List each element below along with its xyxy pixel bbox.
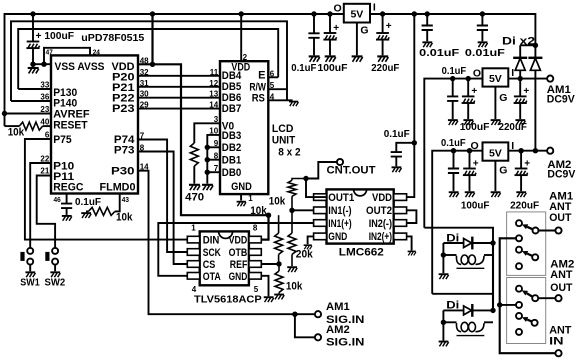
wire OUT1 to CNT.OUT <box>306 162 337 197</box>
wire +5V rail (top, from regulator output to left loop) <box>5 14 344 126</box>
svg-text:14: 14 <box>209 101 218 110</box>
node VR3 input junctions <box>518 148 538 153</box>
capacitor C13 100uF (VR3 out) <box>463 151 476 192</box>
plus mark C14 <box>524 158 530 169</box>
svg-text:13: 13 <box>209 90 218 99</box>
ground (D4/L2) <box>439 342 449 347</box>
svg-text:+: + <box>471 86 477 97</box>
resistor R6 10k (op-amp feedback) <box>288 179 306 211</box>
switch box S1/S2 outline <box>507 212 546 276</box>
ground (C11) <box>515 120 525 125</box>
label CNT.OUT <box>327 164 376 176</box>
wire OTA to IN1(+) <box>158 223 313 276</box>
switch box S3/S4 outline <box>507 278 546 344</box>
svg-text:ANT: ANT <box>550 269 572 281</box>
resistor R1 10k (RESET pullup) <box>5 122 52 130</box>
svg-text:O: O <box>471 140 479 152</box>
svg-text:21: 21 <box>40 167 49 176</box>
wire P11 to SW2 <box>37 176 55 248</box>
resistor R7 20k (IN1- to ground) <box>288 210 296 266</box>
value label 20k (R7) <box>296 249 314 261</box>
resistor R4 10k (divider top, VDD to REF) <box>275 215 283 264</box>
svg-text:uPD78F0515: uPD78F0515 <box>81 32 144 44</box>
ground (C7) <box>422 42 432 47</box>
wire D4 anode down <box>442 310 444 340</box>
svg-text:DB7: DB7 <box>222 103 242 115</box>
ground (DB0-3) <box>202 185 213 190</box>
svg-text:+: + <box>333 23 339 34</box>
capacitor C5 100uF <box>323 14 336 55</box>
wire net P140/RW (rail 2) <box>11 21 287 101</box>
ground (D3/L1) <box>439 274 449 279</box>
svg-text:+: + <box>524 158 530 169</box>
diode D2 (AM2 9V OR) <box>528 45 542 150</box>
svg-text:0.1uF: 0.1uF <box>442 65 467 77</box>
terminal CNT.OUT <box>337 159 343 165</box>
U2 pin boxes <box>187 236 261 279</box>
svg-text:GND: GND <box>231 181 252 193</box>
wire VSS row to MCU pin 47 <box>33 63 51 65</box>
svg-text:REF: REF <box>230 259 248 271</box>
svg-text:G: G <box>499 92 507 104</box>
wire ANT IN bus <box>500 238 556 353</box>
node DAC supply junction <box>266 213 271 218</box>
LCD pin name labels <box>222 62 267 193</box>
svg-text:470: 470 <box>185 191 204 203</box>
switch S2 <box>516 247 538 270</box>
svg-text:33: 33 <box>40 81 49 90</box>
label Di (D4) <box>446 300 459 312</box>
terminal AM2 DC9V <box>547 148 553 154</box>
node VR3 output junctions <box>451 148 472 153</box>
plus mark C11 <box>523 86 529 97</box>
VR1 G label <box>360 25 368 37</box>
U2 pin numbers <box>191 224 259 295</box>
svg-text:I: I <box>373 1 376 13</box>
svg-text:LMC662: LMC662 <box>339 247 384 259</box>
label Di x2 <box>502 36 535 48</box>
diode D4 <box>443 304 493 317</box>
svg-text:220uF: 220uF <box>510 199 540 211</box>
wire VR2 input from AM1 DC9V <box>508 78 547 80</box>
node L1 junction <box>441 252 446 257</box>
wire cathode chain down <box>492 243 494 310</box>
wire LCD E stub <box>268 76 278 78</box>
svg-text:0.1uF: 0.1uF <box>291 62 317 74</box>
svg-text:100uF: 100uF <box>318 62 349 74</box>
wire 5V feed to D3 cathode <box>424 228 493 243</box>
svg-text:OUT1: OUT1 <box>328 192 354 204</box>
wire D3 anode down <box>442 243 444 273</box>
svg-text:220uF: 220uF <box>371 62 400 74</box>
capacitor C12 0.1uF (VR3 out) <box>448 151 459 192</box>
svg-text:IN1(-): IN1(-) <box>328 205 352 217</box>
svg-text:0.01uF: 0.01uF <box>419 47 460 59</box>
terminal AM1 ANT OUT <box>555 227 561 233</box>
VR1 5V label <box>350 9 363 21</box>
capacitor C4 0.1uF <box>308 14 319 55</box>
U3 pin boxes <box>314 194 407 240</box>
svg-text:5V: 5V <box>489 73 502 85</box>
svg-text:AM2: AM2 <box>326 324 350 336</box>
LCD pin numbers <box>209 68 275 173</box>
svg-text:+ 100uF: + 100uF <box>36 30 75 42</box>
wire VR2 output rail <box>424 79 482 228</box>
ground (C9) <box>448 120 458 125</box>
label AM2 ANT OUT <box>550 259 574 294</box>
svg-text:40: 40 <box>40 118 49 127</box>
svg-text:100uF: 100uF <box>461 199 490 211</box>
ground (SW1) <box>25 272 35 277</box>
wire AVSS loop to MCU pin 24 <box>44 48 90 64</box>
svg-text:VDD: VDD <box>229 235 248 247</box>
svg-text:4: 4 <box>270 92 275 101</box>
svg-text:IN1(+): IN1(+) <box>328 218 352 230</box>
svg-text:5V: 5V <box>350 9 363 21</box>
value label 0.1uF (C12) <box>441 137 466 149</box>
svg-text:OUT: OUT <box>549 212 571 224</box>
svg-text:6: 6 <box>270 69 275 78</box>
U1 pin name labels <box>53 61 135 193</box>
node pin48 junction <box>150 62 155 67</box>
svg-text:220uF: 220uF <box>499 121 528 133</box>
svg-text:P73: P73 <box>114 145 135 157</box>
wire DB3-DB0 tie to ground <box>207 135 220 184</box>
resistor R5 10k (REF to ground) <box>275 264 283 294</box>
plus mark C10 <box>471 86 477 97</box>
capacitor C7 0.01uF <box>422 14 433 41</box>
wire U3 GND to ground <box>308 236 314 244</box>
node VR2 input junction <box>518 76 523 81</box>
svg-text:TLV5618ACP: TLV5618ACP <box>194 294 262 306</box>
wire VR3 output rail <box>432 151 482 294</box>
ground (below C1 / VSS node) <box>28 64 39 73</box>
wire 5V feed 2 to D4 cathode <box>432 293 493 295</box>
svg-text:36: 36 <box>40 93 49 102</box>
value label 10k (R3) <box>116 211 133 223</box>
svg-text:8 x 2: 8 x 2 <box>278 147 300 159</box>
value label 10k (R5) <box>286 280 303 292</box>
U2 pin name labels <box>203 235 248 284</box>
VR3 5V label <box>489 147 502 159</box>
svg-text:G: G <box>360 25 368 37</box>
svg-text:+: + <box>473 158 479 169</box>
svg-text:CNT.OUT: CNT.OUT <box>327 164 376 176</box>
VR3 G label <box>499 164 507 176</box>
svg-text:8: 8 <box>253 224 258 233</box>
svg-text:GND: GND <box>328 231 347 243</box>
ground (C5) <box>325 56 336 61</box>
op-amp U3 LMC662 body <box>327 189 394 243</box>
wire S3 common to AM2 ANT OUT <box>538 297 555 299</box>
svg-text:0.1uF: 0.1uF <box>75 196 102 208</box>
VR2 G label <box>499 92 507 104</box>
svg-text:0.1uF: 0.1uF <box>384 128 411 140</box>
ground (VR1 G) <box>352 56 363 61</box>
wire VR3 input from AM2 DC9V <box>508 150 547 152</box>
ground (C12) <box>449 192 459 197</box>
ground (C4) <box>309 56 320 61</box>
U1 pin numbers <box>40 57 149 176</box>
part label uPD78F0515 <box>81 32 144 44</box>
svg-text:10k: 10k <box>250 205 267 217</box>
plus mark C13 <box>473 158 479 169</box>
capacitor C1 100uF (top-left electrolytic) <box>26 14 39 64</box>
node IN1(-) junction <box>289 208 294 213</box>
reference label SW1 SW2 <box>20 276 65 288</box>
pin number 47 <box>46 47 53 56</box>
label ANT IN <box>549 325 571 348</box>
VR2 5V label <box>489 73 502 85</box>
svg-text:VSS AVSS: VSS AVSS <box>55 61 105 73</box>
wire VR1 G to ground <box>356 23 358 56</box>
svg-text:LCD: LCD <box>272 123 294 135</box>
inductor L1 <box>443 255 493 264</box>
node L2 junction <box>441 320 446 325</box>
value label 10k (R1) <box>8 126 25 138</box>
wire S1 common to AM1 ANT OUT <box>539 230 556 232</box>
wire 9V input rail (regulator input to diode-OR corner) <box>370 14 535 45</box>
ground (R7) <box>287 267 297 272</box>
value labels 100uF 220uF (VR2) <box>460 121 528 133</box>
node VCC junction dots on top rail <box>30 11 485 16</box>
svg-text:DIN: DIN <box>203 235 220 247</box>
svg-text:DB2: DB2 <box>222 142 242 154</box>
wire U3 VDD to 9V rail <box>407 14 415 197</box>
terminal AM1 SIG.IN <box>315 311 321 317</box>
wire P10 to SW1 <box>30 163 51 248</box>
svg-text:RESET: RESET <box>53 119 88 131</box>
value label 0.1uF (C9) <box>442 65 467 77</box>
wire VR2 G to ground <box>494 87 496 120</box>
ground (C6) <box>377 56 388 61</box>
svg-text:P23: P23 <box>112 103 135 115</box>
microcontroller U1 uPD78F0515 box <box>51 55 138 193</box>
svg-text:0.1uF: 0.1uF <box>441 137 466 149</box>
value label + 100uF <box>36 30 75 42</box>
ground (LCD GND) <box>237 202 246 207</box>
node AVREF junction <box>2 111 7 116</box>
value label 470 <box>185 191 204 203</box>
wire diode tops to rail <box>520 44 535 46</box>
label AM2 DC9V <box>547 159 576 181</box>
ground (C3) <box>392 167 402 172</box>
ground (R5) <box>274 295 284 300</box>
svg-text:RS: RS <box>252 92 265 104</box>
VR2 I label <box>511 67 514 79</box>
wire P73 to DAC CS <box>138 152 187 265</box>
svg-text:E: E <box>258 69 265 81</box>
svg-text:SW2: SW2 <box>45 276 66 288</box>
label AM1 ANT OUT <box>549 190 573 224</box>
svg-text:GND: GND <box>229 271 248 283</box>
ground (VR3 G) <box>491 192 501 197</box>
svg-text:46: 46 <box>54 195 61 204</box>
pin number 2 <box>243 53 248 62</box>
value label 0.1uF (C3) <box>384 128 411 140</box>
switch S4 <box>516 313 538 335</box>
terminal AM2 ANT OUT <box>555 295 561 301</box>
pin number 1 <box>248 194 253 203</box>
pin number 46 <box>54 195 61 204</box>
svg-text:FLMD0: FLMD0 <box>100 181 136 193</box>
switch S1 (AM1 ANT OUT select) <box>516 220 539 241</box>
node feedback junction <box>303 176 308 181</box>
svg-text:IN2(+): IN2(+) <box>369 231 393 243</box>
ground (VR2 G) <box>491 120 501 125</box>
L1 core line <box>457 267 485 269</box>
capacitor C2 0.1uF (REGC) <box>61 194 72 215</box>
wire net P130/E (rail 3) <box>18 29 278 89</box>
capacitor C11 220uF (VR2 in) <box>514 79 527 120</box>
plus mark C5 <box>333 23 339 34</box>
svg-text:1: 1 <box>248 194 253 203</box>
node VR2 output junctions <box>450 76 471 81</box>
ground (C14) <box>516 192 526 197</box>
svg-text:5: 5 <box>270 81 275 90</box>
L2 core line <box>457 335 485 337</box>
VR3 O label <box>471 140 479 152</box>
wire V0 to contrast resistor <box>194 123 220 143</box>
ground (IN2+) <box>408 251 416 255</box>
VR2 O label <box>473 68 481 80</box>
value label 10k (near DAC VDD) <box>250 205 267 217</box>
pin number 24 <box>93 47 101 56</box>
ground (C13) <box>465 192 475 197</box>
svg-text:DB1: DB1 <box>222 155 242 167</box>
switch S3 (AM2 ANT OUT select) <box>516 286 538 308</box>
node D3 cathode junction <box>490 240 495 245</box>
wire P21-DB5 <box>138 86 220 88</box>
plus mark C6 <box>386 21 392 32</box>
VR1 O label <box>334 3 342 15</box>
capacitor C3 0.1uF (U3 decoupling) <box>391 143 415 167</box>
wire IN1(-) node <box>292 209 314 211</box>
wire LCD RS stub <box>268 99 292 101</box>
terminal AM2 SIG.IN <box>315 334 321 340</box>
svg-text:P75: P75 <box>53 134 71 146</box>
node D4 cathode junction <box>490 308 495 313</box>
node ANT bus junction <box>497 302 502 307</box>
capacitor C8 0.01uF <box>477 14 488 41</box>
wire P22-DB6 <box>138 97 220 99</box>
svg-text:12: 12 <box>209 79 218 88</box>
ground (C2) <box>62 216 72 221</box>
pin number 43 <box>122 195 129 204</box>
wire LCD GND pin1 <box>240 194 242 200</box>
wire OUT2 to IN2(-) <box>407 210 417 223</box>
resistor R3 10k (FLMD0 pulldown) <box>86 194 120 216</box>
ground (C10) <box>463 120 473 125</box>
wire P23-DB7 <box>138 108 220 110</box>
regulator VR2 5V box <box>483 68 509 86</box>
svg-text:DB3: DB3 <box>222 130 242 142</box>
ground (LCD RS/RW) <box>289 102 298 107</box>
node REF junction <box>276 261 281 266</box>
capacitor C9 0.1uF (VR2 out) <box>447 79 458 120</box>
part label LMC662 <box>339 247 384 259</box>
capacitor C10 100uF (VR2 out) <box>462 79 475 120</box>
wire LCD VDD pin2 to +5V <box>240 14 242 61</box>
svg-text:10k: 10k <box>8 126 25 138</box>
svg-text:5V: 5V <box>489 147 502 159</box>
svg-text:43: 43 <box>122 195 129 204</box>
svg-text:100uF: 100uF <box>460 121 490 133</box>
svg-text:10k: 10k <box>286 280 303 292</box>
wire P20-DB4 <box>138 75 220 77</box>
wire VR3 G to ground <box>494 161 496 192</box>
svg-text:DC9V: DC9V <box>547 169 576 181</box>
label Di (D3) <box>446 232 459 244</box>
svg-text:+: + <box>386 21 392 32</box>
ground (SW2) <box>50 272 60 277</box>
svg-text:AM1: AM1 <box>326 301 350 313</box>
value labels 0.01uF 0.01uF <box>419 47 505 59</box>
switch SW2 pushbutton <box>45 248 58 265</box>
VR3 I label <box>511 140 514 152</box>
wire to AM2 SIG.IN <box>295 314 315 337</box>
svg-text:23: 23 <box>40 105 49 114</box>
resistor R2 470 (LCD contrast) <box>190 143 198 184</box>
svg-text:10k: 10k <box>116 211 133 223</box>
svg-text:OTB: OTB <box>229 247 248 259</box>
wire U2 GND pin5 to ground <box>261 276 268 296</box>
ground (U3 GND) <box>304 245 312 249</box>
diode D3 <box>443 237 493 250</box>
value label 10k (R6) <box>269 195 286 207</box>
ground (C8) <box>478 42 488 47</box>
wire P30 to SIG.IN terminals <box>138 171 315 315</box>
regulator VR1 5V box <box>344 4 370 23</box>
terminal ANT IN <box>555 350 561 356</box>
svg-text:OTA: OTA <box>203 271 221 283</box>
capacitor C14 220uF (VR3 in) <box>515 151 528 192</box>
wire P74 to DAC SCK <box>138 140 187 253</box>
wire bus to S3 contact <box>500 304 516 306</box>
svg-text:IN: IN <box>549 336 563 348</box>
svg-text:P30: P30 <box>111 166 135 178</box>
svg-text:DC9V: DC9V <box>547 94 576 106</box>
svg-text:G: G <box>499 164 507 176</box>
DAC U2 TLV5618ACP body <box>200 231 249 285</box>
svg-text:20k: 20k <box>296 249 314 261</box>
node DB2/DB1/DB0 junctions <box>205 145 210 175</box>
LCD module box <box>220 61 268 194</box>
ground (R3) <box>81 213 91 218</box>
wire LCD R/W stub <box>268 88 287 90</box>
svg-text:OUT: OUT <box>550 282 572 294</box>
svg-text:O: O <box>334 3 342 15</box>
wire SW2 to ground <box>54 265 56 272</box>
node diode-OR junction <box>533 43 538 48</box>
svg-text:I: I <box>511 67 514 79</box>
wire VDD pin48 / DAC supply feed <box>138 14 269 240</box>
svg-text:SIG.IN: SIG.IN <box>326 337 364 349</box>
diode D1 (AM1 9V OR) <box>513 45 527 78</box>
value labels 0.1uF 100uF 220uF <box>291 62 400 74</box>
svg-text:0.01uF: 0.01uF <box>465 47 506 59</box>
regulator VR3 5V box <box>483 142 509 160</box>
terminal AM1 DC9V <box>547 76 553 82</box>
inductor L2 <box>443 322 493 331</box>
svg-text:1: 1 <box>191 224 196 233</box>
svg-text:O: O <box>473 68 481 80</box>
node SIG.IN junction <box>292 312 297 317</box>
svg-text:DB0: DB0 <box>222 167 242 179</box>
node VSS junction <box>30 61 46 66</box>
svg-text:IN2(-): IN2(-) <box>369 218 393 230</box>
svg-text:SCK: SCK <box>203 247 221 259</box>
